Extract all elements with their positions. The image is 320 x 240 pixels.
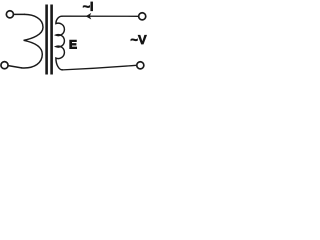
wire secondary bottom (63, 65, 137, 70)
terminal T2 (primary bottom) (1, 62, 8, 69)
label ~V (131, 35, 147, 44)
terminal T4 (secondary bottom) (137, 62, 144, 69)
label E (70, 40, 77, 48)
wire primary bottom (8, 66, 21, 68)
inductor L2 secondary winding E (56, 16, 65, 70)
wire primary top (14, 13, 25, 15)
transformer core (47, 5, 52, 75)
terminal T1 (primary top) (6, 11, 13, 18)
label ~I (83, 2, 93, 11)
wire secondary top (62, 15, 138, 17)
arrow current direction (86, 13, 92, 20)
inductor L1 primary winding (22, 14, 44, 68)
terminal T3 (secondary top) (139, 13, 146, 20)
